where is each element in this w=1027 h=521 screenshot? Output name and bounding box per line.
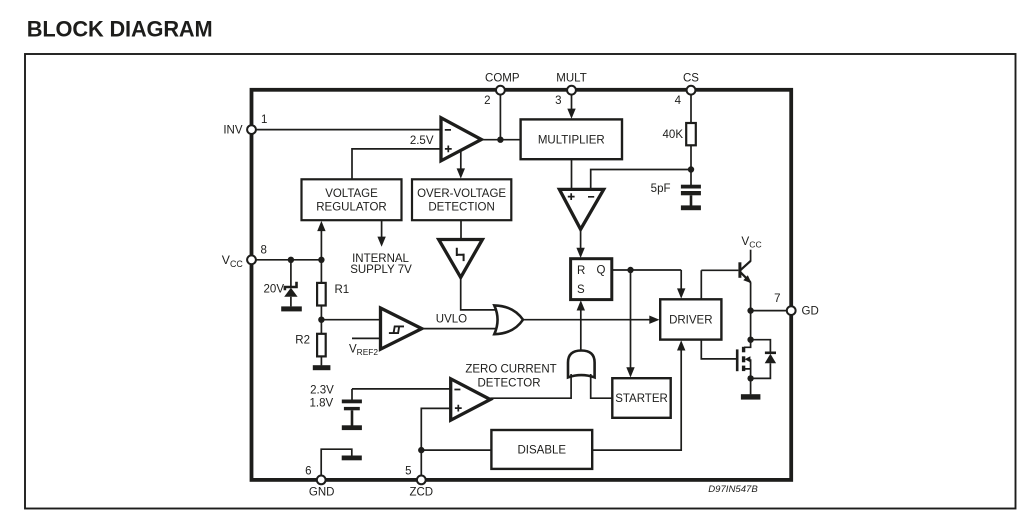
resistor R1 [317, 260, 349, 306]
wire gnd pin6 internal reference [321, 449, 352, 476]
wire 2.5V reference to error amp + input [352, 149, 441, 179]
OR gate U1 (uvlo/ovp) [494, 305, 523, 334]
wire driver to mosfet gate [701, 340, 736, 359]
ground below battery [342, 425, 362, 430]
ground output stage [741, 378, 761, 399]
wire 40K to CS node [690, 145, 692, 169]
wire Vcc to npn collector [750, 250, 752, 262]
wire zcd minus input [352, 388, 451, 390]
wire VREF2 input [352, 337, 381, 339]
svg-text:40K: 40K [663, 129, 684, 141]
wire driver to npn base [700, 270, 702, 299]
svg-text:MULT: MULT [556, 73, 586, 85]
wire CS node to comparator minus input [591, 170, 691, 190]
svg-text:D97IN547B: D97IN547B [708, 484, 758, 495]
node zcd/disable junction [418, 447, 424, 453]
comparator zero current detector [451, 379, 491, 420]
wire CS pin4 to 40K resistor [690, 90, 692, 124]
resistor 40K [686, 123, 696, 145]
svg-text:VOLTAGE: VOLTAGE [325, 188, 378, 200]
pin 8 Vcc [222, 244, 267, 268]
transistor M1 mosfet low-side [737, 340, 750, 379]
ground bar internal [342, 456, 362, 461]
node drain/diode junction [747, 337, 753, 343]
svg-text:8: 8 [261, 244, 267, 256]
svg-text:DISABLE: DISABLE [518, 445, 567, 457]
wire UVLO output to OR gate [422, 328, 497, 330]
wire GD node to pin7 [751, 310, 787, 312]
node R1 branch [318, 257, 324, 263]
ground below 5pF [681, 205, 701, 210]
disable block [491, 430, 592, 469]
battery thresholds 2.3V/1.8V [342, 389, 362, 426]
svg-text:DRIVER: DRIVER [669, 315, 712, 327]
wire COMP pin2 down [499, 90, 501, 140]
svg-text:GND: GND [309, 487, 335, 499]
svg-text:Q: Q [597, 265, 606, 277]
svg-text:R2: R2 [295, 334, 310, 346]
svg-text:5pF: 5pF [651, 183, 671, 195]
wire Vcc pin8 rail [252, 259, 322, 261]
wire INV pin1 to error amp [252, 129, 442, 131]
pin 1 INV [223, 114, 267, 137]
svg-text:DETECTOR: DETECTOR [477, 378, 540, 390]
node GD [747, 307, 753, 313]
svg-text:1.8V: 1.8V [310, 397, 334, 409]
transistor Q1 npn high-side [701, 261, 751, 283]
pin 2 COMP [484, 73, 520, 108]
svg-text:6: 6 [305, 466, 311, 478]
zener diode 20V [284, 260, 297, 307]
pin 5 ZCD [405, 466, 433, 499]
ground below R2 [313, 356, 331, 370]
pin 4 CS [675, 73, 700, 108]
comparator multiplier/CS (triangle down) [559, 159, 603, 229]
wire comparator to flip-flop R (arrow) [576, 229, 584, 258]
svg-text:UVLO: UVLO [436, 314, 467, 326]
OR gate U2 (zcd/starter, pointing up) [568, 351, 595, 378]
svg-text:OVER-VOLTAGE: OVER-VOLTAGE [417, 188, 506, 200]
svg-text:ZERO CURRENT: ZERO CURRENT [465, 363, 556, 375]
wire Vcc branch up into voltage regulator (arrow) [317, 221, 325, 260]
diode body (parallel with mosfet) [751, 340, 777, 379]
pin 7 GD [774, 293, 819, 317]
svg-text:VCC: VCC [741, 234, 761, 250]
comparator UVLO (schmitt) [381, 308, 422, 349]
svg-text:REGULATOR: REGULATOR [316, 201, 387, 213]
svg-text:3: 3 [555, 95, 561, 107]
wire OR gate output to driver (arrow) [523, 316, 660, 324]
svg-text:MULTIPLIER: MULTIPLIER [538, 135, 605, 147]
wire Q down into starter (arrow) [626, 270, 634, 378]
wire error amp output to multiplier [481, 139, 520, 141]
wire internal supply output (arrow down) [377, 220, 385, 247]
svg-text:2: 2 [484, 95, 490, 107]
node source junction [747, 375, 753, 381]
svg-text:GD: GD [802, 306, 819, 318]
resistor R2 [295, 334, 325, 357]
svg-text:R1: R1 [335, 284, 350, 296]
node junction comp/output [497, 137, 503, 143]
pin 6 GND [305, 466, 334, 499]
node zener branch [288, 257, 294, 263]
wire zcd plus input from pin5 [421, 408, 451, 476]
starter block [612, 378, 670, 418]
wire Q output to driver [612, 269, 681, 271]
svg-text:S: S [577, 284, 585, 296]
wire divider to UVLO comparator [321, 319, 381, 321]
wire GD node to mosfet drain [750, 311, 752, 340]
pin 3 MULT [555, 73, 587, 108]
svg-text:5: 5 [405, 466, 411, 478]
svg-text:20V: 20V [264, 284, 285, 296]
svg-text:ZCD: ZCD [409, 487, 433, 499]
ground below zener [281, 306, 302, 311]
svg-text:CS: CS [683, 73, 699, 85]
svg-text:R: R [577, 265, 585, 277]
svg-text:7: 7 [774, 293, 780, 305]
flip-flop R/S latch [571, 259, 612, 300]
voltage regulator block [302, 179, 402, 220]
svg-text:2.5V: 2.5V [410, 135, 434, 147]
hysteresis buffer over-voltage (triangle down) [439, 240, 483, 278]
op-amp error amplifier 2.5V [441, 118, 481, 161]
wire zcd comparator to OR gate left input [490, 374, 571, 398]
svg-text:DETECTION: DETECTION [428, 201, 494, 213]
svg-text:4: 4 [675, 95, 682, 107]
svg-text:1: 1 [261, 114, 267, 126]
driver block [660, 299, 721, 339]
wire R1 to R2 junction [320, 306, 322, 335]
wire emitter to GD node [750, 282, 752, 310]
wire disable to driver bottom (arrow) [592, 340, 685, 450]
IC boundary [252, 90, 792, 480]
wire Q down into driver top (arrow) [677, 270, 685, 299]
multiplier block U MULTIPLIER [521, 119, 622, 159]
node Q junction [627, 267, 633, 273]
svg-text:VREF2: VREF2 [349, 343, 378, 357]
node R1/R2 divider [318, 317, 324, 323]
wire MULT pin3 into multiplier (arrow) [567, 90, 575, 119]
svg-text:SUPPLY 7V: SUPPLY 7V [350, 264, 412, 276]
wire error amp to over-voltage detection (arrow) [457, 151, 465, 179]
svg-text:INV: INV [223, 125, 243, 137]
svg-text:COMP: COMP [485, 73, 520, 85]
over-voltage detection block [412, 179, 511, 220]
svg-text:BLOCK DIAGRAM: BLOCK DIAGRAM [27, 17, 213, 42]
wire over-voltage to hysteresis buffer [460, 220, 462, 239]
svg-text:2.3V: 2.3V [310, 385, 334, 397]
node CS sense junction [688, 166, 694, 172]
wire junction to disable block [421, 449, 491, 451]
svg-text:VCC: VCC [222, 253, 244, 269]
svg-text:STARTER: STARTER [615, 393, 668, 405]
capacitor 5pF [681, 170, 701, 206]
wire ZCD-OR output to flip-flop S (arrow) [577, 300, 585, 350]
wire hysteresis buffer to OR gate top input [461, 277, 497, 310]
wire starter to OR gate right input [591, 374, 613, 398]
